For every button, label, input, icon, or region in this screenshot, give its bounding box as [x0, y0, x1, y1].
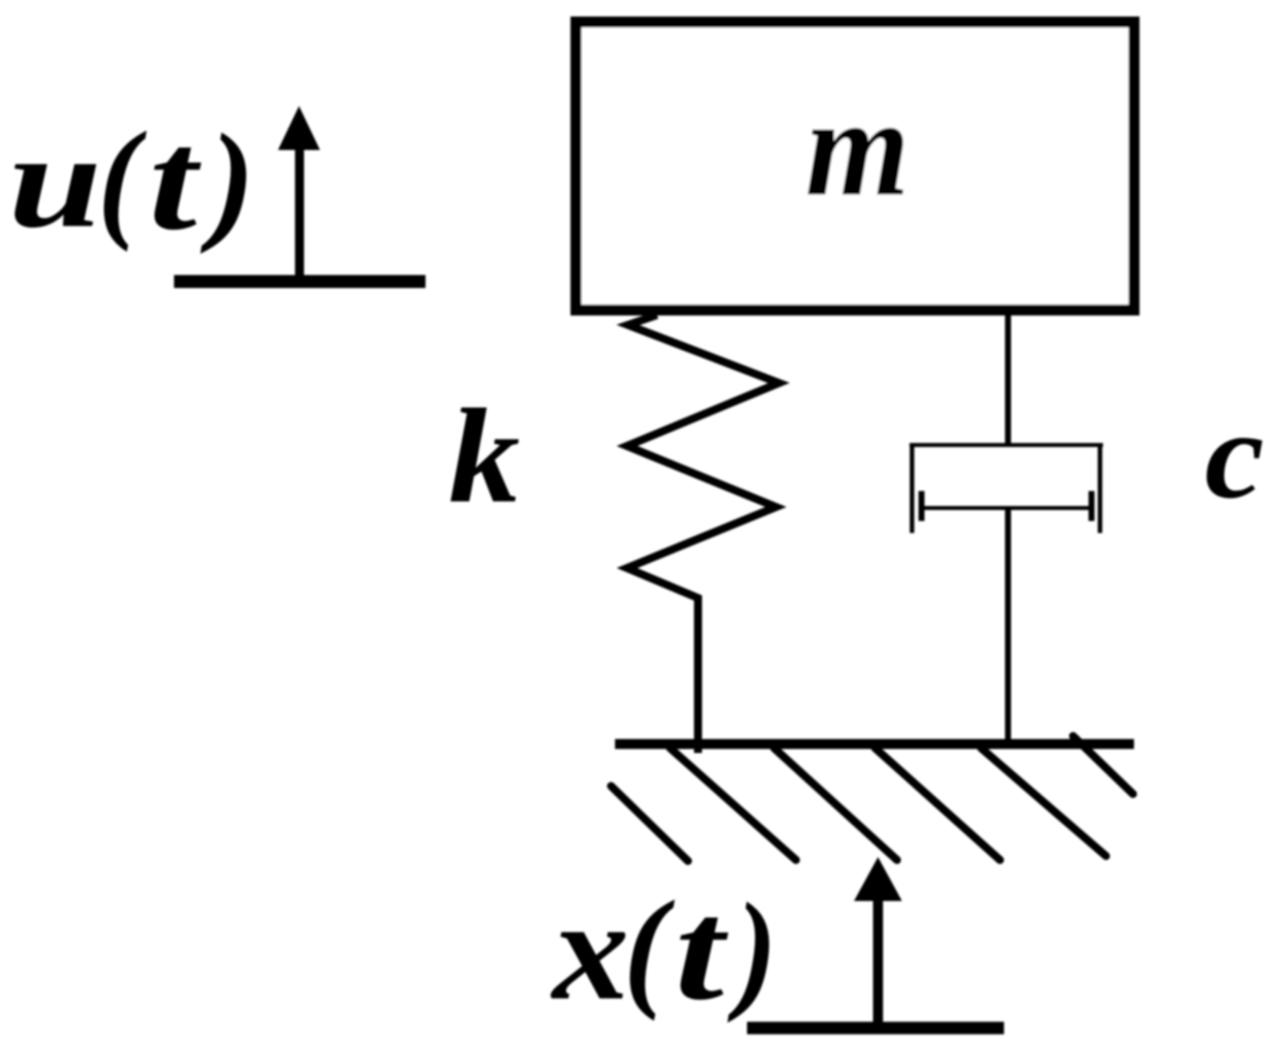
- svg-text:k: k: [449, 382, 520, 532]
- ground hatch stroke 5: [1073, 736, 1133, 794]
- ground line: [615, 739, 1134, 749]
- ground hatch stroke 2: [774, 748, 897, 860]
- ground hatch stroke 4: [981, 748, 1106, 856]
- svg-text:): ): [200, 106, 254, 254]
- svg-text:(: (: [98, 104, 147, 252]
- u(t) arrow head: [278, 106, 320, 150]
- ground hatch stroke 0: [611, 786, 688, 861]
- damper cylinder left wall: [910, 443, 915, 533]
- ground hatch stroke 1: [670, 748, 796, 860]
- damper piston plate: [921, 506, 1092, 510]
- mass block m: [576, 22, 1134, 310]
- x(t) base arrow shaft: [873, 893, 883, 1033]
- svg-text:c: c: [1205, 386, 1265, 525]
- u(t) arrow datum line: [174, 275, 426, 288]
- svg-text:m: m: [805, 68, 909, 225]
- damper lower rod: [1005, 508, 1011, 748]
- damper piston right cap: [1089, 491, 1095, 521]
- damper cylinder right wall: [1098, 443, 1103, 533]
- svg-text:u: u: [8, 106, 102, 256]
- svg-text:t: t: [149, 101, 202, 260]
- u(t) reference arrow shaft: [295, 140, 304, 288]
- label u(t): [8, 101, 254, 260]
- svg-text:): ): [727, 875, 777, 1024]
- x(t) arrow head: [854, 857, 902, 901]
- damper cylinder top: [910, 443, 1104, 447]
- spring k zigzag: [627, 315, 779, 753]
- damper upper rod: [1005, 310, 1011, 447]
- ground hatch stroke 3: [875, 748, 1000, 860]
- x(t) arrow datum line: [747, 1022, 1004, 1035]
- svg-text:x: x: [550, 870, 629, 1030]
- damper piston left cap: [919, 491, 925, 521]
- svg-text:t: t: [675, 870, 729, 1030]
- label x(t): [550, 870, 776, 1030]
- svg-text:(: (: [624, 873, 675, 1022]
